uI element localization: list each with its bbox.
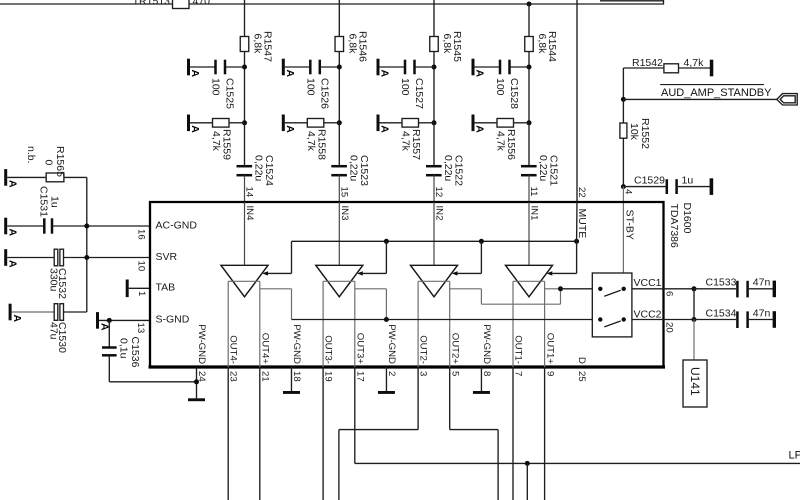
wire C1522 to pin 12 <box>433 175 435 202</box>
svg-text:IN1: IN1 <box>529 206 540 221</box>
svg-text:11: 11 <box>528 187 539 197</box>
wire ground to C1531 <box>7 225 44 227</box>
wire standby to flag <box>623 98 776 100</box>
svg-text:OUT2-: OUT2- <box>418 335 429 364</box>
wire bias rail A <box>292 240 577 242</box>
wire junction to C1522 <box>433 123 435 166</box>
op-amp U1D power amp 4 <box>506 265 553 297</box>
wire R1547 to junctions <box>244 52 246 123</box>
svg-text:0,22u: 0,22u <box>537 155 549 181</box>
svg-text:C1527: C1527 <box>413 78 425 109</box>
ground PW-GND 18 <box>283 391 300 394</box>
wire R1557 to channel <box>419 122 435 124</box>
svg-text:A: A <box>189 125 201 133</box>
wire OUT2- down jog <box>417 367 419 430</box>
terminal bar R1542 <box>710 60 714 77</box>
wire OUT2- output <box>417 281 419 367</box>
wire C1521 to pin 11 <box>528 175 530 202</box>
svg-text:0,1u: 0,1u <box>118 338 130 359</box>
overline AUD_AMP_STANDBY <box>660 84 764 86</box>
svg-text:OUT4-: OUT4- <box>228 335 239 364</box>
ground for R1556 <box>472 115 475 132</box>
wire OUT3 output bus <box>323 280 355 282</box>
svg-text:AUD_AMP_STANDBY: AUD_AMP_STANDBY <box>661 87 772 99</box>
wire ST-BY pin into IC <box>622 187 624 273</box>
resistor R1547 6,8k <box>240 37 249 52</box>
svg-text:S-GND: S-GND <box>156 314 190 326</box>
resistor R1558 4,7k <box>307 119 324 128</box>
svg-text:6: 6 <box>664 291 675 296</box>
capacitor C1528 100 <box>499 60 502 75</box>
wire ground to C1525 <box>190 66 216 68</box>
svg-text:C1534: C1534 <box>706 307 737 319</box>
node LP junction <box>525 461 530 466</box>
svg-text:100: 100 <box>210 78 222 96</box>
node standby junction <box>621 97 626 102</box>
svg-text:TAB: TAB <box>156 282 176 294</box>
svg-text:13: 13 <box>135 323 146 334</box>
wire VCC to U141 <box>693 289 695 320</box>
svg-text:5: 5 <box>449 371 460 376</box>
svg-text:47n: 47n <box>753 277 771 289</box>
capacitor C1531 1u <box>43 218 46 233</box>
wire R1558 to channel <box>324 122 340 124</box>
svg-text:8: 8 <box>481 371 492 376</box>
wire C1524 to pin 14 <box>244 175 246 202</box>
svg-text:IN2: IN2 <box>434 206 445 221</box>
svg-text:4,7k: 4,7k <box>400 131 412 152</box>
wire PW-GND pin 24 <box>196 367 198 398</box>
svg-text:SVR: SVR <box>156 251 178 263</box>
capacitor C1526 100 <box>309 60 312 75</box>
wire R1542 to terminal <box>679 67 711 69</box>
wire ground to C1528 <box>475 66 501 68</box>
op-amp U1B power amp 2 <box>316 265 363 297</box>
svg-text:VCC2: VCC2 <box>633 309 661 321</box>
svg-text:0: 0 <box>43 160 55 166</box>
svg-text:330u: 330u <box>48 268 60 292</box>
wire ground to R1559 <box>190 122 213 124</box>
wire amp4 feedback branch <box>545 288 561 290</box>
arrow into amp4 <box>547 271 553 275</box>
op-amp U1A power amp 1 <box>221 265 268 297</box>
svg-text:n.b.: n.b. <box>25 146 37 164</box>
wire OUT4- down <box>227 367 229 500</box>
node IN3 divider junction <box>337 120 342 125</box>
terminal bar C1534 <box>773 311 776 328</box>
wire ST-BY node to C1529 <box>623 186 665 188</box>
svg-text:0,22u: 0,22u <box>253 155 265 181</box>
arrow into amp2 <box>357 271 363 275</box>
svg-text:A: A <box>7 180 19 188</box>
terminal bar C1529 <box>710 178 714 195</box>
svg-text:A: A <box>474 125 486 133</box>
wire arrow feed amp1 <box>268 272 292 274</box>
wire R1542 feed corner <box>623 67 664 69</box>
wire PW-GND pin 8 <box>480 367 482 391</box>
capacitor C1532 330u <box>54 249 58 266</box>
node IN4 divider junction <box>242 120 247 125</box>
capacitor C1525 100 <box>214 60 217 75</box>
IC U D1600 TDA7386 body <box>150 202 664 367</box>
capacitor C1530 47u <box>54 304 58 321</box>
wire C1525 to channel <box>225 66 245 68</box>
svg-text:6,8k: 6,8k <box>536 34 548 55</box>
resistor R1556 4,7k <box>497 119 514 128</box>
wire C1533 wires <box>694 288 736 290</box>
wire junction to C1521 <box>528 123 530 166</box>
svg-text:MUTE: MUTE <box>576 209 588 239</box>
wire top rail upper return <box>600 0 664 2</box>
contact VCC2 right <box>622 317 626 321</box>
resistor R1565 0 <box>46 173 64 182</box>
capacitor C1533 47n <box>736 281 739 298</box>
arrow into amp1 <box>262 271 268 275</box>
svg-text:23: 23 <box>228 371 239 382</box>
wire junction to C1524 <box>244 123 246 166</box>
node rail A MUTE junction <box>574 239 579 244</box>
node IN1 bias junction <box>527 65 532 70</box>
svg-text:PW-GND: PW-GND <box>291 324 302 364</box>
wire ground to R1558 <box>285 122 308 124</box>
wire R1552 to ST-BY node <box>622 138 624 186</box>
svg-text:TR1513: TR1513 <box>133 0 171 8</box>
ground for C1526 <box>282 59 285 76</box>
wire IN3 into amplifier <box>338 202 340 265</box>
wire OUT1+ down <box>544 367 546 500</box>
wire channel IN4 vertical upper <box>244 0 246 37</box>
wire ground to R1557 <box>380 122 403 124</box>
svg-text:A: A <box>284 70 296 78</box>
resistor R1552 10k <box>620 123 627 138</box>
arrow into amp3 <box>452 271 458 275</box>
wire OUT4+ down <box>259 367 261 500</box>
svg-text:ST-BY: ST-BY <box>624 210 636 240</box>
svg-text:A: A <box>474 70 486 78</box>
wire amp2 feedback branch <box>355 288 387 290</box>
svg-text:VCC1: VCC1 <box>633 277 661 289</box>
svg-text:A: A <box>379 70 391 78</box>
connector U141 <box>683 360 707 407</box>
wire S-GND ground to pin 13 <box>99 319 150 321</box>
wire amp3 feedback branch <box>450 288 482 290</box>
ground for R1559 <box>187 115 190 132</box>
svg-text:U141: U141 <box>688 367 702 396</box>
wire OUT4- output <box>227 281 229 367</box>
wire C1532 to SVR pin 10 <box>64 257 151 259</box>
wire VCC1 pin 6 out <box>632 288 694 290</box>
resistor R1542 4,7k <box>664 64 679 73</box>
svg-text:21: 21 <box>259 371 270 382</box>
resistor R1544 6,8k <box>525 37 534 52</box>
svg-text:47u: 47u <box>48 322 60 340</box>
switch box ST-BY <box>592 273 632 337</box>
wire C1536 down <box>108 355 110 382</box>
capacitor C1536 0,1u <box>102 346 117 349</box>
capacitor C1522 0,22u <box>426 165 442 168</box>
svg-text:4,7k: 4,7k <box>210 131 222 152</box>
wire ground to C1530 <box>12 311 55 313</box>
node VCC1 internal junction <box>558 286 563 291</box>
svg-text:PW-GND: PW-GND <box>196 324 207 364</box>
svg-text:C1533: C1533 <box>706 277 737 289</box>
svg-text:D: D <box>576 357 587 364</box>
svg-text:10k: 10k <box>628 123 640 141</box>
node SVR junction <box>84 255 89 260</box>
wire arrow feed amp4 <box>552 272 576 274</box>
wire C1536 to PW-GND net <box>109 381 196 383</box>
node IN1 divider junction <box>527 120 532 125</box>
svg-text:0,22u: 0,22u <box>347 155 359 181</box>
switch lever VCC1 <box>604 290 620 296</box>
wire OUT4+ output <box>259 281 261 367</box>
wire top rail stub up <box>663 0 665 5</box>
op-amp U1C power amp 3 <box>411 265 458 297</box>
svg-text:OUT3+: OUT3+ <box>354 333 365 365</box>
wire C1530 to left bus <box>64 311 87 313</box>
svg-text:OUT2+: OUT2+ <box>449 333 460 365</box>
svg-text:C1525: C1525 <box>224 78 236 109</box>
svg-text:A: A <box>11 315 23 323</box>
svg-text:A: A <box>379 125 391 133</box>
wire R1559 to channel <box>229 122 245 124</box>
wire R1565 to corner <box>64 176 87 178</box>
wire C1529 to terminal <box>678 186 710 188</box>
wire OUT4 output bus <box>228 280 260 282</box>
wire OUT3- output <box>322 281 324 367</box>
svg-text:19: 19 <box>323 371 334 382</box>
ground PW-GND 8 <box>473 391 490 394</box>
wire VCC2 pin 20 out <box>632 319 694 321</box>
svg-text:16: 16 <box>136 229 147 240</box>
svg-text:10: 10 <box>136 261 147 272</box>
wire R1546 to junctions <box>338 52 340 123</box>
svg-text:4,7k: 4,7k <box>305 131 317 152</box>
resistor R1545 6,8k <box>430 37 439 52</box>
svg-text:C1531: C1531 <box>38 186 50 217</box>
svg-text:C1526: C1526 <box>318 78 330 109</box>
resistor R1546 6,8k <box>335 37 344 52</box>
wire OUT3+ down to LP <box>354 367 356 463</box>
node IN3 bias junction <box>337 65 342 70</box>
wire channel IN2 vertical upper <box>433 0 435 37</box>
node VCC1 junction <box>692 286 697 291</box>
wire channel IN1 vertical upper <box>528 4 530 37</box>
svg-text:R1542: R1542 <box>632 57 663 69</box>
node PW-GND24 junction <box>194 379 199 384</box>
svg-text:4: 4 <box>623 189 634 195</box>
svg-text:20: 20 <box>664 322 675 333</box>
wire IN4 into amplifier <box>244 202 246 265</box>
ground TAB <box>126 280 129 298</box>
contact VCC1 right <box>622 287 626 291</box>
svg-text:7: 7 <box>513 371 524 376</box>
wire arrow feed amp2 <box>363 272 387 274</box>
wire standby node to R1552 <box>622 99 624 123</box>
capacitor C1521 0,22u <box>521 165 537 168</box>
wire C1526 to channel <box>320 66 340 68</box>
wire VCC1 to switch <box>561 288 593 290</box>
wire C1523 to pin 15 <box>338 175 340 202</box>
svg-text:4,7k: 4,7k <box>684 57 705 69</box>
svg-text:3: 3 <box>418 371 429 376</box>
wire rail A drop to amp3 <box>480 241 482 273</box>
ground S-GND <box>96 312 99 329</box>
wire ground to R1556 <box>475 122 498 124</box>
svg-text:4,7k: 4,7k <box>495 131 507 152</box>
svg-text:6,8k: 6,8k <box>346 34 358 55</box>
svg-text:1u: 1u <box>49 196 61 208</box>
svg-text:100: 100 <box>399 78 411 96</box>
wire junction to C1523 <box>338 123 340 166</box>
svg-text:17: 17 <box>354 371 365 382</box>
contact VCC1 left <box>598 287 602 291</box>
wire C1528 to channel <box>510 66 530 68</box>
node rail B amp2 junction <box>384 317 389 322</box>
wire OUT2+ down jog <box>449 367 451 430</box>
svg-text:IN4: IN4 <box>244 206 255 222</box>
wire OUT1- down <box>512 367 514 500</box>
resistor R1557 4,7k <box>402 119 419 128</box>
svg-text:PW-GND: PW-GND <box>386 324 397 364</box>
wire channel IN3 vertical upper <box>338 0 340 37</box>
svg-text:1u: 1u <box>682 174 694 186</box>
wire R1544 to junctions <box>528 52 530 123</box>
ground row C1530 <box>9 304 12 321</box>
svg-text:18: 18 <box>291 371 302 382</box>
node IN4 bias junction <box>242 65 247 70</box>
wire MUTE line from top <box>576 0 578 202</box>
capacitor C1524 0,22u <box>237 165 253 168</box>
ground row C1532 <box>4 249 7 266</box>
node rail A T3 tap <box>479 239 484 244</box>
wire TAB ground to pin 1 <box>129 287 150 289</box>
svg-text:D1600: D1600 <box>681 203 693 234</box>
svg-text:6,8k: 6,8k <box>252 34 264 55</box>
svg-text:A: A <box>284 125 296 133</box>
wire C1531 to AC-GND pin 16 <box>52 225 150 227</box>
svg-text:22: 22 <box>576 187 587 198</box>
wire S-GND to C1536 <box>108 320 110 347</box>
svg-text:OUT1-: OUT1- <box>513 335 524 364</box>
svg-text:LP: LP <box>789 449 800 461</box>
wire OUT2+ output <box>449 281 451 367</box>
svg-text:OUT3-: OUT3- <box>323 335 334 364</box>
ground PW-GND 24 <box>188 398 205 401</box>
ground row R1565 <box>4 169 7 186</box>
contact VCC2 left <box>598 317 602 321</box>
terminal bar C1533 <box>773 281 776 298</box>
svg-text:PW-GND: PW-GND <box>481 324 492 364</box>
capacitor C1529 1u <box>666 179 669 194</box>
node supply junction ch4 <box>527 2 532 7</box>
wire PW-GND pin 2 <box>385 367 387 391</box>
wire rail A drop to amp2 <box>385 241 387 273</box>
wire C1534 wires <box>694 319 736 321</box>
wire OUT2 output bus <box>418 280 450 282</box>
wire OUT1+ output <box>544 281 546 367</box>
resistor R1559 4,7k <box>213 119 230 128</box>
flag AUD_AMP_STANDBY inner <box>780 96 795 103</box>
svg-text:9: 9 <box>544 371 555 376</box>
wire LP branch down <box>526 463 528 500</box>
capacitor C1534 47n <box>736 311 739 328</box>
wire ground to C1532 <box>7 257 54 259</box>
switch lever VCC2 <box>604 321 620 327</box>
svg-text:100: 100 <box>494 78 506 96</box>
wire OUT3+ output <box>354 281 356 367</box>
capacitor C1523 0,22u <box>331 165 347 168</box>
node ST-BY junction <box>621 184 626 189</box>
wire C1527 to channel <box>415 66 435 68</box>
flag AUD_AMP_STANDBY outer <box>777 94 797 105</box>
svg-text:A: A <box>7 229 19 237</box>
svg-text:470: 470 <box>193 0 211 8</box>
svg-text:TDA7386: TDA7386 <box>668 204 680 249</box>
svg-text:IN3: IN3 <box>339 206 350 221</box>
svg-text:1: 1 <box>136 291 147 296</box>
svg-text:C1528: C1528 <box>508 78 520 109</box>
svg-text:AC-GND: AC-GND <box>156 219 198 231</box>
wire rail A drop to amp1 <box>291 241 293 273</box>
svg-text:A: A <box>189 70 201 78</box>
wire IN1 into amplifier <box>528 202 530 265</box>
wire R1545 to junctions <box>433 52 435 123</box>
svg-text:C1536: C1536 <box>129 337 141 368</box>
svg-text:47n: 47n <box>753 307 771 319</box>
wire arrow feed amp3 <box>458 272 482 274</box>
wire MUTE inside IC <box>576 202 578 241</box>
ground for C1528 <box>472 59 475 76</box>
wire amp1 feedback branch <box>260 288 292 290</box>
wire OUT1 output bus <box>513 280 545 282</box>
IC bottom edge thick <box>149 365 666 368</box>
wire ground to C1527 <box>380 66 406 68</box>
svg-text:R1565: R1565 <box>54 146 66 177</box>
svg-text:OUT4+: OUT4+ <box>259 333 270 365</box>
wire ground to R1565 <box>7 176 46 178</box>
svg-text:OUT1+: OUT1+ <box>544 333 555 365</box>
svg-text:14: 14 <box>244 187 255 198</box>
wire VCC2 rail B <box>292 319 593 321</box>
wire top supply rail <box>0 3 664 5</box>
svg-text:A: A <box>7 260 19 268</box>
node S-GND junction <box>107 318 112 323</box>
node VCC2 junction <box>692 317 697 322</box>
node IN2 bias junction <box>432 65 437 70</box>
wire ground to C1526 <box>285 66 311 68</box>
svg-text:6,8k: 6,8k <box>441 34 453 55</box>
svg-text:12: 12 <box>433 187 444 198</box>
svg-text:C1529: C1529 <box>634 174 665 186</box>
ground for C1527 <box>377 59 380 76</box>
ground PW-GND 2 <box>378 391 395 394</box>
wire PW-GND pin 18 <box>290 367 292 391</box>
ground for R1557 <box>377 115 380 132</box>
node AC-GND junction <box>84 224 89 229</box>
svg-text:15: 15 <box>338 187 349 198</box>
wire OUT3- down <box>322 367 324 500</box>
wire left bus vertical <box>86 177 88 312</box>
wire IN2 into amplifier <box>433 202 435 265</box>
svg-text:100: 100 <box>304 78 316 96</box>
capacitor C1527 100 <box>404 60 407 75</box>
node IN2 divider junction <box>432 120 437 125</box>
node rail A T2 tap <box>384 239 389 244</box>
svg-text:2: 2 <box>386 371 397 376</box>
wire R1556 to channel <box>514 122 530 124</box>
ground for C1525 <box>187 59 190 76</box>
